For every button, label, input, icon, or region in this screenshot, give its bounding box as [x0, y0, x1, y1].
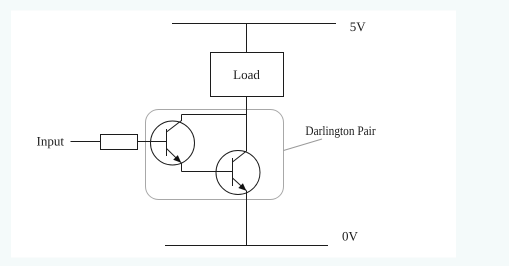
svg-text:Input: Input	[37, 134, 65, 149]
svg-text:5V: 5V	[350, 19, 367, 34]
svg-text:0V: 0V	[342, 228, 359, 243]
svg-text:Darlington Pair: Darlington Pair	[305, 123, 376, 138]
svg-text:Load: Load	[233, 67, 260, 82]
